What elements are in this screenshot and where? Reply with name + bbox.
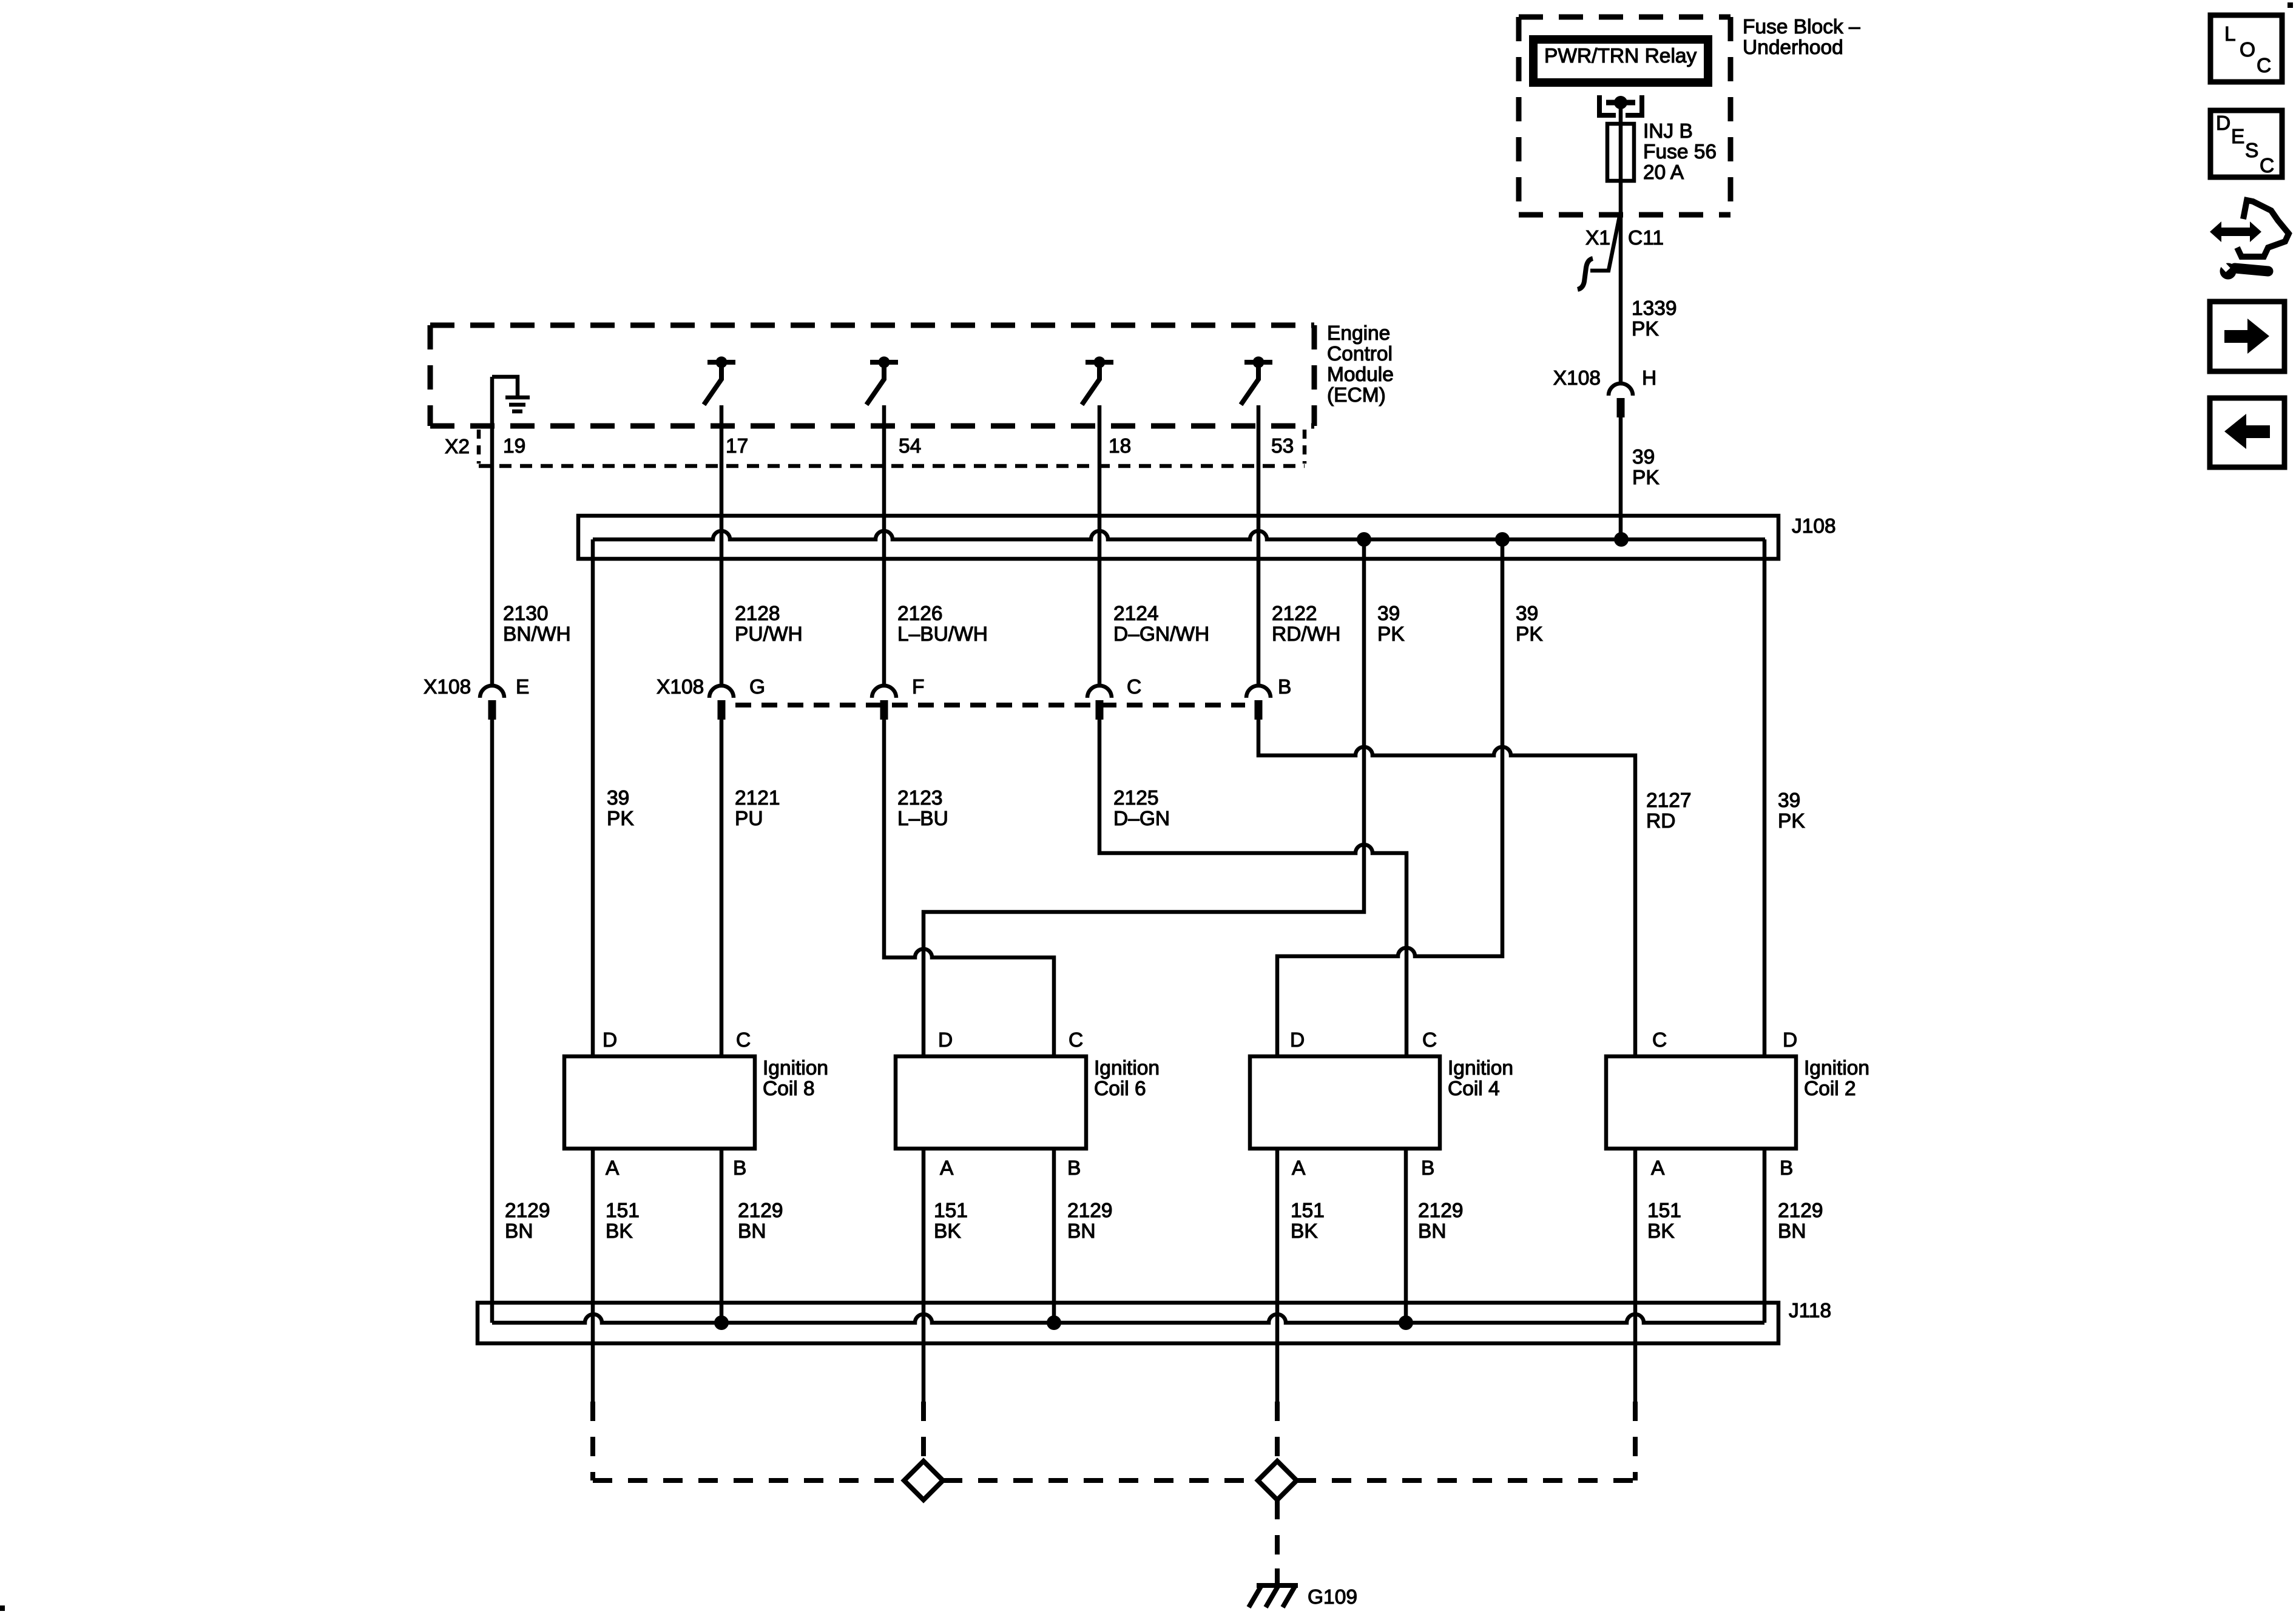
svg-text:PU/WH: PU/WH <box>735 623 803 646</box>
icon service tool wrench <box>2220 262 2269 280</box>
svg-text:Fuse 56: Fuse 56 <box>1643 141 1717 163</box>
icon DESC box <box>2210 110 2282 177</box>
svg-text:C: C <box>1127 676 1141 698</box>
wire 2123 L-BU X108 F to coil6 C with hop <box>884 720 1054 1056</box>
svg-text:BN: BN <box>1418 1220 1447 1243</box>
svg-text:Coil 6: Coil 6 <box>1094 1078 1146 1100</box>
svg-text:C: C <box>2260 155 2274 177</box>
svg-text:54: 54 <box>899 435 921 457</box>
svg-text:A: A <box>1651 1157 1665 1180</box>
svg-text:Engine: Engine <box>1327 322 1390 345</box>
junction dot J118 coil8 B <box>714 1315 729 1330</box>
junction dot J108 at 39PK-2 <box>1495 532 1510 547</box>
svg-text:2128: 2128 <box>735 603 780 625</box>
svg-text:Ignition: Ignition <box>1448 1057 1513 1079</box>
svg-text:B: B <box>1780 1157 1793 1180</box>
svg-text:39: 39 <box>1632 446 1655 468</box>
svg-text:C: C <box>736 1029 751 1052</box>
relay contact bar with pivot dot <box>1606 100 1635 106</box>
svg-text:A: A <box>606 1157 620 1180</box>
dashed ground bus segment 2 <box>943 1478 1258 1483</box>
connector X2 strip bottom dotted line <box>479 464 1305 468</box>
junction dot J118 coil4 B <box>1399 1315 1413 1330</box>
svg-text:PU: PU <box>735 808 763 830</box>
svg-text:2126: 2126 <box>897 603 943 625</box>
svg-text:X1: X1 <box>1585 227 1610 249</box>
wire 2125 D-GN X108 C to coil4 C with hop <box>1099 720 1406 1056</box>
svg-text:18: 18 <box>1109 435 1131 457</box>
svg-text:39: 39 <box>1377 603 1400 625</box>
svg-text:J118: J118 <box>1789 1300 1831 1322</box>
ignition coil 6 box <box>896 1056 1086 1149</box>
svg-text:BN: BN <box>1778 1220 1806 1243</box>
page corner mark bottom left <box>0 1605 5 1611</box>
ground G109 chassis symbol <box>1249 1585 1298 1607</box>
svg-text:151: 151 <box>606 1200 640 1222</box>
svg-text:151: 151 <box>1291 1200 1325 1222</box>
wire fuse to connector C11 and down to X108 H <box>1619 181 1623 384</box>
svg-text:D: D <box>938 1029 953 1052</box>
svg-text:BN: BN <box>505 1220 533 1243</box>
connector X2 strip left separator <box>477 430 481 464</box>
svg-text:2129: 2129 <box>1778 1200 1823 1222</box>
svg-text:53: 53 <box>1271 435 1294 457</box>
svg-text:G109: G109 <box>1308 1586 1357 1609</box>
ECM internal ground symbol <box>492 377 518 396</box>
connector X108 E terminal pin <box>488 700 496 720</box>
svg-text:Ignition: Ignition <box>1094 1057 1160 1079</box>
driver Q17 in ECM <box>704 357 735 405</box>
dashed wire splice S2 to ground G109 <box>1275 1500 1280 1568</box>
svg-text:D–GN: D–GN <box>1113 808 1170 830</box>
svg-text:B: B <box>1421 1157 1434 1180</box>
connector C11 slash symbol <box>1590 217 1619 271</box>
wire 2129 BN coil2 B to J118 right end <box>1763 1149 1767 1323</box>
svg-text:B: B <box>733 1157 746 1180</box>
page corner mark top right <box>2288 2 2293 8</box>
svg-text:151: 151 <box>1647 1200 1681 1222</box>
svg-text:E: E <box>516 676 529 698</box>
svg-text:A: A <box>1292 1157 1306 1180</box>
wire 151 BK coil4 A to J118 <box>1275 1149 1280 1402</box>
splice pack J118 bus bar with hops <box>492 1314 1764 1323</box>
fuse F56 INJ B 20A <box>1607 124 1634 181</box>
svg-text:Underhood: Underhood <box>1743 36 1843 59</box>
dashed ground wire below coil4 A <box>1275 1402 1280 1460</box>
driver Q18 in ECM <box>1082 357 1113 405</box>
wire 39 PK X108 H to J108 <box>1619 417 1623 539</box>
wire ECM pin 53 to X108 B <box>1257 405 1261 686</box>
svg-text:BN: BN <box>1067 1220 1096 1243</box>
svg-text:2127: 2127 <box>1646 789 1692 812</box>
connector X108 F half-circle <box>872 686 896 698</box>
connector X108 B terminal pin <box>1255 700 1263 720</box>
svg-text:151: 151 <box>934 1200 968 1222</box>
svg-text:H: H <box>1642 367 1656 390</box>
wire 2129 BN X108 E down to J118 <box>490 720 495 1323</box>
svg-text:2129: 2129 <box>505 1200 550 1222</box>
ECM dashed enclosure <box>430 325 1314 426</box>
wire 2129 BN coil6 B to J118 <box>1052 1149 1056 1323</box>
relay contact terminals <box>1599 95 1642 115</box>
svg-text:L–BU/WH: L–BU/WH <box>897 623 988 646</box>
svg-text:D: D <box>603 1029 617 1052</box>
wire ECM pin 54 to X108 F <box>882 405 886 686</box>
splice S2 diamond <box>1258 1461 1297 1500</box>
connector X108 C half-circle <box>1087 686 1112 698</box>
wire 2122 RD-WH / 2127 RD X108 B to coil2 C with hops <box>1258 720 1635 1056</box>
icon forward arrow box <box>2210 302 2284 371</box>
dashed ground bus segment 1 <box>593 1478 904 1483</box>
svg-text:2125: 2125 <box>1113 787 1159 809</box>
icon LOC box <box>2210 15 2282 82</box>
svg-text:Coil 2: Coil 2 <box>1804 1078 1856 1100</box>
svg-text:RD/WH: RD/WH <box>1272 623 1341 646</box>
svg-text:BK: BK <box>1647 1220 1675 1243</box>
svg-text:17: 17 <box>726 435 748 457</box>
svg-text:X108: X108 <box>657 676 704 698</box>
svg-text:2123: 2123 <box>897 787 943 809</box>
connector X108 G terminal pin <box>718 700 726 720</box>
driver Q54 in ECM <box>866 357 898 405</box>
svg-text:2121: 2121 <box>735 787 780 809</box>
splice pack J108 bus bar with hops <box>593 531 1765 539</box>
junction dot J108 at feed <box>1614 532 1629 547</box>
svg-text:Ignition: Ignition <box>1804 1057 1869 1079</box>
svg-text:BN/WH: BN/WH <box>503 623 571 646</box>
svg-text:BK: BK <box>606 1220 633 1243</box>
ignition coil 2 box <box>1606 1056 1796 1149</box>
wire 2121 PU X108 G to coil8 C <box>720 720 724 1056</box>
driver Q53 in ECM <box>1241 357 1272 405</box>
connector X108 E half-circle <box>480 686 504 698</box>
wire 2129 BN coil4 B to J118 <box>1404 1149 1408 1323</box>
ignition coil 4 box <box>1250 1056 1440 1149</box>
dashed ground wire below coil6 A <box>921 1402 926 1460</box>
wire 39 PK J108 to coil4 D with hop <box>1277 539 1502 1056</box>
fuse block underhood dashed enclosure <box>1519 17 1730 215</box>
splice pack J118 outer box <box>478 1303 1778 1343</box>
svg-text:2124: 2124 <box>1113 603 1159 625</box>
splice S1 diamond <box>904 1461 943 1500</box>
wire ECM pin 19 to X108 E <box>490 377 495 686</box>
wire 151 BK coil6 A to J118 <box>922 1149 926 1402</box>
svg-text:C: C <box>2257 55 2271 77</box>
svg-text:PK: PK <box>1632 467 1660 489</box>
svg-text:C11: C11 <box>1628 227 1664 249</box>
connector X108 F terminal pin <box>880 700 888 720</box>
svg-text:BN: BN <box>738 1220 766 1243</box>
svg-text:F: F <box>912 676 924 698</box>
ignition coil 8 box <box>564 1056 755 1149</box>
icon service tool double arrow <box>2210 221 2261 242</box>
svg-text:Fuse Block –: Fuse Block – <box>1743 16 1860 38</box>
junction dot J118 coil6 B <box>1047 1315 1061 1330</box>
wire 39 PK J108 right end down to coil2 D <box>1763 539 1767 1056</box>
svg-text:D: D <box>1783 1029 1797 1052</box>
wire stub at ground G109 <box>1275 1568 1280 1585</box>
svg-text:A: A <box>940 1157 954 1180</box>
svg-text:39: 39 <box>1778 789 1800 812</box>
svg-text:Control: Control <box>1327 343 1393 365</box>
svg-text:PK: PK <box>1632 318 1659 340</box>
svg-text:2129: 2129 <box>1067 1200 1113 1222</box>
svg-text:19: 19 <box>503 435 525 457</box>
svg-text:G: G <box>749 676 765 698</box>
connector C11 hook curl <box>1578 258 1593 289</box>
dashed ground bus segment 3 <box>1297 1478 1635 1483</box>
connector X2 strip right separator <box>1303 430 1307 464</box>
svg-text:BK: BK <box>934 1220 961 1243</box>
svg-text:PK: PK <box>1516 623 1543 646</box>
wire 151 BK coil8 A to J118 <box>591 1149 595 1402</box>
connector X108 G half-circle <box>709 686 734 698</box>
wire through fuse <box>1619 124 1623 181</box>
svg-text:X2: X2 <box>445 436 470 458</box>
svg-text:2130: 2130 <box>503 603 549 625</box>
svg-text:Coil 4: Coil 4 <box>1448 1078 1500 1100</box>
wire relay to fuse <box>1619 103 1623 124</box>
dashed ground wire below coil8 A <box>590 1402 595 1480</box>
dashed ground wire below coil2 A <box>1633 1402 1638 1480</box>
dashed link X108 G-F-C-B <box>735 703 1245 707</box>
svg-text:PK: PK <box>1377 623 1405 646</box>
svg-text:C: C <box>1069 1029 1083 1052</box>
connector X108 C terminal pin <box>1096 700 1104 720</box>
svg-text:39: 39 <box>607 787 629 809</box>
wire 2129 BN coil8 B to J118 <box>720 1149 724 1323</box>
svg-text:2129: 2129 <box>1418 1200 1464 1222</box>
svg-text:J108: J108 <box>1792 515 1836 538</box>
svg-text:RD: RD <box>1646 810 1675 832</box>
wire ECM pin 17 to X108 G <box>720 405 724 686</box>
svg-text:(ECM): (ECM) <box>1327 384 1386 407</box>
svg-text:E: E <box>2231 126 2244 148</box>
connector X108 H half-circle <box>1609 383 1633 396</box>
svg-text:39: 39 <box>1516 603 1538 625</box>
svg-text:PWR/TRN Relay: PWR/TRN Relay <box>1544 45 1697 67</box>
wire 39 PK J108 to coil6 D <box>923 539 1364 1056</box>
svg-text:X108: X108 <box>1553 367 1601 390</box>
svg-text:INJ B: INJ B <box>1643 120 1693 143</box>
wire 151 BK coil2 A to J118 <box>1633 1149 1638 1402</box>
svg-text:D: D <box>1290 1029 1305 1052</box>
svg-text:C: C <box>1652 1029 1667 1052</box>
connector X108 B half-circle <box>1246 686 1271 698</box>
icon back arrow <box>2224 414 2270 449</box>
icon forward arrow <box>2224 319 2269 354</box>
svg-text:PK: PK <box>607 808 634 830</box>
svg-text:X108: X108 <box>424 676 471 698</box>
svg-text:D: D <box>2216 112 2230 135</box>
svg-text:2129: 2129 <box>738 1200 783 1222</box>
svg-text:2122: 2122 <box>1272 603 1317 625</box>
splice pack J108 outer box <box>578 516 1778 559</box>
relay K PWR/TRN Relay box <box>1533 39 1708 83</box>
svg-text:1339: 1339 <box>1632 297 1677 320</box>
wire ECM pin 18 to X108 C <box>1098 405 1102 686</box>
svg-text:D–GN/WH: D–GN/WH <box>1113 623 1209 646</box>
junction dot J108 at 39PK-1 <box>1357 532 1371 547</box>
svg-text:BK: BK <box>1291 1220 1318 1243</box>
svg-text:L–BU: L–BU <box>897 808 948 830</box>
svg-text:Module: Module <box>1327 363 1394 386</box>
svg-text:O: O <box>2240 39 2255 61</box>
svg-text:20 A: 20 A <box>1643 161 1684 184</box>
svg-text:C: C <box>1422 1029 1437 1052</box>
svg-text:Coil 8: Coil 8 <box>763 1078 815 1100</box>
svg-text:L: L <box>2224 23 2236 46</box>
svg-text:B: B <box>1067 1157 1081 1180</box>
svg-text:PK: PK <box>1778 810 1805 832</box>
icon service tool jagged outline <box>2237 200 2289 257</box>
svg-text:B: B <box>1278 676 1291 698</box>
connector X108 H terminal pin <box>1617 398 1625 417</box>
svg-text:S: S <box>2245 140 2258 162</box>
icon back arrow box <box>2210 398 2284 467</box>
wire 39 PK J108 left end down to coil8 D <box>591 539 595 1056</box>
svg-text:Ignition: Ignition <box>763 1057 828 1079</box>
